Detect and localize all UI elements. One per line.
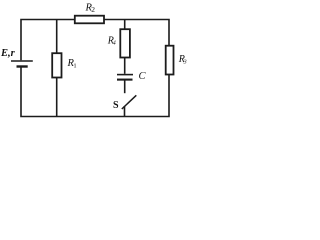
svg-text:1: 1 [73,63,76,70]
svg-text:4: 4 [113,40,116,47]
svg-text:3: 3 [183,59,187,65]
svg-text:E,r: E,r [0,48,16,59]
svg-text:C: C [139,71,147,82]
svg-text:2: 2 [91,5,95,14]
svg-text:S: S [113,100,119,111]
